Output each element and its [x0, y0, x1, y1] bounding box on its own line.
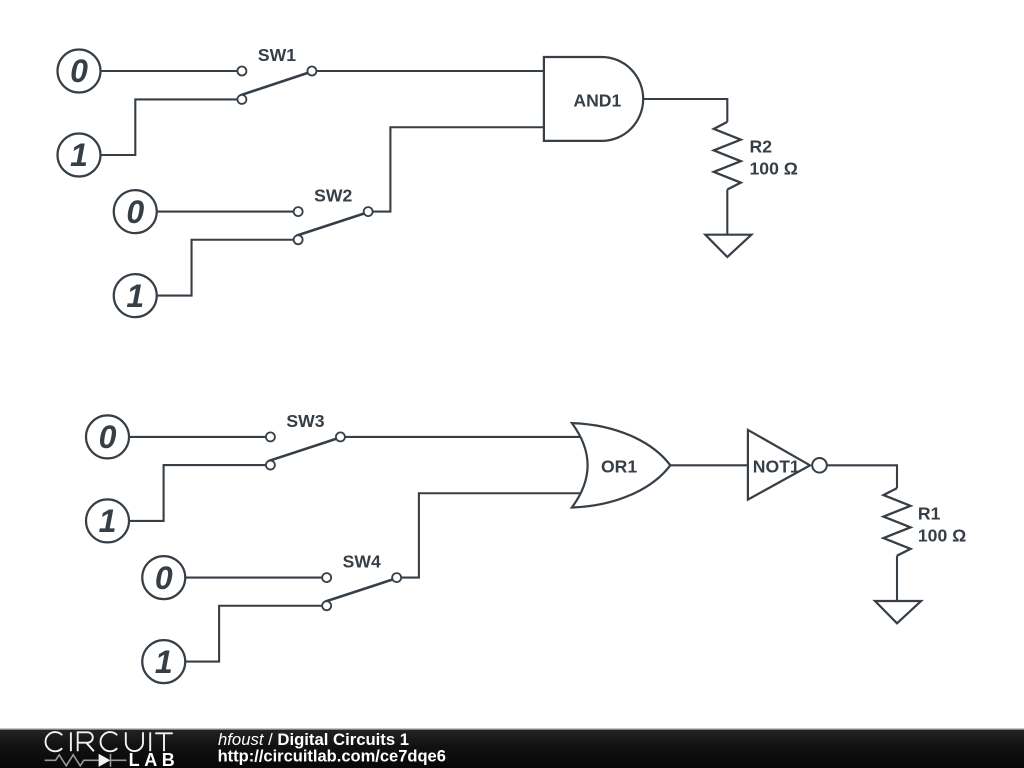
AND gate AND1: [544, 57, 643, 141]
node 0 source for SW3: [86, 415, 129, 458]
svg-text:SW1: SW1: [258, 45, 296, 65]
svg-text:1: 1: [99, 503, 117, 539]
ground (bottom circuit): [875, 601, 921, 623]
letter I: [70, 732, 72, 751]
switch SW4: [322, 552, 401, 611]
svg-text:1: 1: [126, 278, 144, 314]
svg-text:R2: R2: [750, 137, 773, 157]
wire SW1 input 1 (via riser) to throw contact: [101, 99, 242, 155]
letter C: [101, 732, 118, 751]
SW3 throw contact 0: [266, 432, 275, 441]
SW4 pole contact: [392, 573, 401, 582]
SW2 arm: [297, 213, 367, 236]
SW4 throw contact 1: [322, 601, 331, 610]
SW1 arm: [240, 72, 310, 95]
ground (top circuit): [705, 235, 751, 257]
node circle: [86, 415, 129, 458]
wire OR1 output to NOT1: [670, 464, 748, 466]
node circle: [58, 50, 101, 93]
wire NOT1 output to R1: [827, 465, 897, 488]
wire SW4 input 0 to throw contact: [185, 577, 326, 579]
resistor R1: [884, 488, 967, 556]
node circle: [142, 640, 185, 683]
wire SW3 input 0 to throw contact: [129, 436, 270, 438]
SW1 throw contact 0: [237, 67, 246, 76]
switch SW1: [237, 45, 316, 104]
node circle: [114, 274, 157, 317]
svg-text:OR1: OR1: [601, 456, 637, 476]
node circle: [142, 556, 185, 599]
SW3 pole contact: [336, 432, 345, 441]
svg-text:0: 0: [126, 194, 144, 230]
node circle: [86, 499, 129, 542]
letter R: [78, 732, 94, 751]
footer bar: [0, 729, 1024, 768]
switch SW2: [294, 186, 373, 245]
svg-text:R1: R1: [918, 504, 941, 524]
svg-text:0: 0: [155, 560, 173, 596]
SW2 pole contact: [364, 207, 373, 216]
wire SW3 pole to OR1 input A: [340, 436, 583, 438]
OR gate OR1: [572, 423, 670, 507]
SW2 throw contact 1: [294, 235, 303, 244]
SW3 throw contact 1: [266, 461, 275, 470]
node 0 source for SW1: [58, 50, 101, 93]
svg-text:http://circuitlab.com/ce7dqe6: http://circuitlab.com/ce7dqe6: [218, 748, 446, 766]
SW1 throw contact 1: [237, 95, 246, 104]
svg-text:SW2: SW2: [314, 186, 352, 206]
node 1 source for SW2: [114, 274, 157, 317]
svg-text:SW3: SW3: [286, 411, 324, 431]
wire AND1 output to R2: [643, 99, 727, 122]
wire SW1 input 0 to throw contact: [101, 70, 242, 72]
svg-text:1: 1: [155, 644, 173, 680]
svg-text:0: 0: [70, 53, 88, 89]
node 0 source for SW4: [142, 556, 185, 599]
SW1 pole contact: [307, 67, 316, 76]
svg-text:hfoust / Digital Circuits 1: hfoust / Digital Circuits 1: [218, 730, 409, 749]
wire SW1 pole to AND1 input A: [312, 70, 545, 72]
svg-text:LAB: LAB: [129, 750, 180, 768]
wire SW2 input 1 (via riser) to throw contact: [157, 240, 298, 296]
svg-text:NOT1: NOT1: [753, 456, 800, 476]
SW2 throw contact 0: [294, 207, 303, 216]
svg-text:AND1: AND1: [573, 91, 621, 111]
wire SW2 pole riser to AND1 input B: [368, 127, 545, 211]
svg-text:100 Ω: 100 Ω: [918, 526, 966, 546]
CircuitLab logo: diode triangle: [99, 754, 111, 767]
letter I: [149, 732, 151, 751]
CircuitLab logo: CIRCUIT lettering: [46, 732, 173, 751]
SW4 arm: [325, 579, 395, 602]
node 1 source for SW3: [86, 499, 129, 542]
node circle: [114, 190, 157, 233]
wire SW4 input 1 (via riser) to throw contact: [185, 606, 326, 662]
wire SW2 input 0 to throw contact: [157, 211, 298, 213]
letter C: [46, 732, 63, 751]
node 1 source for SW4: [142, 640, 185, 683]
CircuitLab logo: resistor-diode underline: [45, 754, 127, 767]
NOT1 output bubble: [812, 458, 827, 473]
letter T: [155, 733, 173, 751]
switch SW3: [266, 411, 345, 470]
svg-text:0: 0: [99, 419, 117, 455]
letter U: [126, 732, 143, 751]
wire R2 to ground: [726, 190, 728, 235]
node 0 source for SW2: [114, 190, 157, 233]
inverter NOT1: [748, 430, 827, 500]
svg-text:100 Ω: 100 Ω: [750, 159, 798, 179]
resistor R2: [714, 122, 798, 190]
SW4 throw contact 0: [322, 573, 331, 582]
wire SW4 pole riser to OR1 input B: [397, 493, 583, 577]
SW3 arm: [269, 438, 339, 461]
node 1 source for SW1: [58, 134, 101, 177]
node circle: [58, 134, 101, 177]
wire R1 to ground: [896, 556, 898, 601]
svg-text:SW4: SW4: [343, 552, 381, 572]
wire SW3 input 1 (via riser) to throw contact: [129, 465, 270, 521]
svg-text:1: 1: [70, 137, 88, 173]
